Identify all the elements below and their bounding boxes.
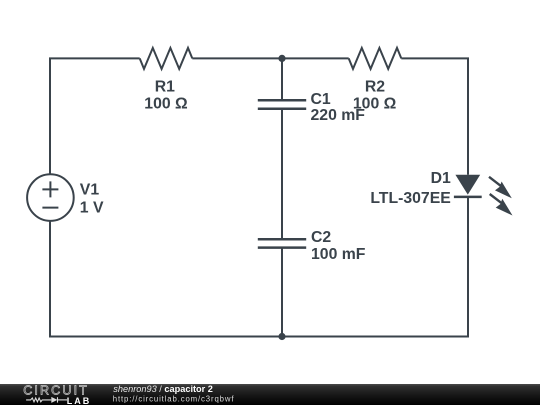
svg-text:shenron93 / capacitor 2: shenron93 / capacitor 2 <box>113 384 213 394</box>
svg-text:C2: C2 <box>311 229 331 246</box>
svg-text:C1: C1 <box>311 91 331 108</box>
svg-text:D1: D1 <box>431 170 451 187</box>
svg-text:R1: R1 <box>155 79 175 96</box>
svg-text:R2: R2 <box>365 79 385 96</box>
svg-text:220 mF: 220 mF <box>311 107 366 124</box>
svg-text:100 mF: 100 mF <box>311 246 366 263</box>
svg-text:V1: V1 <box>80 182 100 199</box>
svg-text:LAB: LAB <box>67 396 92 405</box>
svg-text:LTL-307EE: LTL-307EE <box>370 190 450 207</box>
svg-text:1 V: 1 V <box>80 199 104 216</box>
svg-text:http://circuitlab.com/c3rqbwf: http://circuitlab.com/c3rqbwf <box>113 394 235 403</box>
svg-text:100 Ω: 100 Ω <box>144 96 188 113</box>
